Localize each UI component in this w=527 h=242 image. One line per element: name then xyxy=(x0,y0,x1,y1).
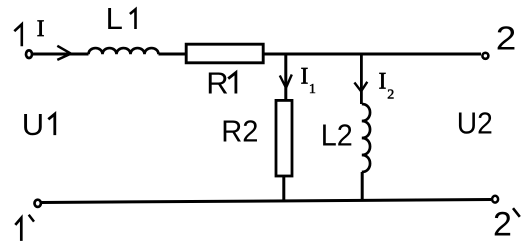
svg-text:2: 2 xyxy=(387,87,394,102)
svg-text:2: 2 xyxy=(496,20,517,57)
svg-text:I: I xyxy=(301,63,309,88)
svg-text:I: I xyxy=(379,69,387,94)
svg-text:1: 1 xyxy=(309,82,316,97)
svg-text:L: L xyxy=(106,1,123,36)
svg-text:R: R xyxy=(206,65,228,100)
svg-text:I: I xyxy=(37,16,45,41)
svg-text:R2: R2 xyxy=(221,115,258,149)
svg-text:2: 2 xyxy=(493,205,512,242)
svg-text:L2: L2 xyxy=(321,119,353,153)
svg-text:U2: U2 xyxy=(457,106,493,141)
svg-text:U: U xyxy=(22,107,44,142)
